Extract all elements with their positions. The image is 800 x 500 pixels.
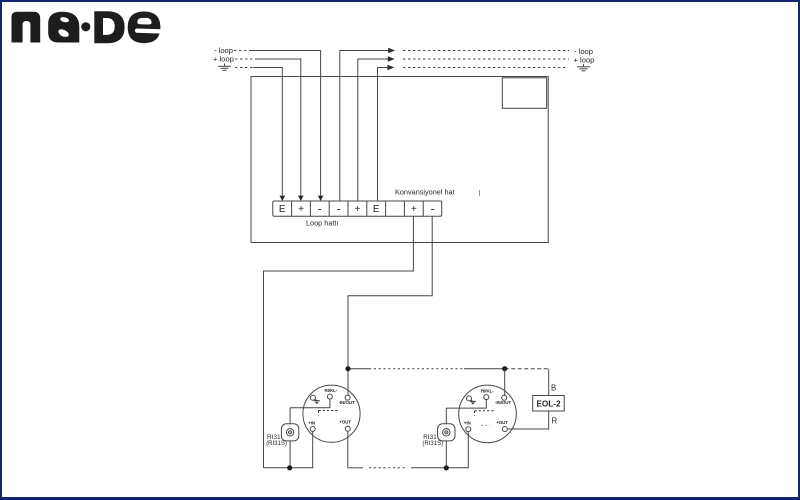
junction dot at detector1 -IN/OUT branch	[345, 366, 350, 371]
svg-text:E: E	[279, 204, 286, 215]
wire from conventional "+" terminal down-left-down to bottom bus	[264, 216, 414, 468]
wire down from bus corner to EOL-2 B	[548, 369, 550, 396]
svg-text:-IN/OUT: -IN/OUT	[339, 400, 355, 405]
det2 terminal RI/KL-	[484, 395, 489, 400]
RI31 #1 inner rings	[286, 429, 293, 436]
stray tick mark	[479, 190, 481, 196]
det2 terminal -IN/OUT	[502, 395, 507, 400]
terminal letters E + - - + E + -	[279, 202, 435, 216]
ground symbol top-left	[218, 64, 231, 71]
arrowhead right, - loop out	[388, 48, 395, 53]
svg-text:+IN: +IN	[464, 421, 471, 426]
terminal block outer	[273, 201, 442, 216]
det2 internal wire RI/KL- to RI31#2	[446, 400, 486, 409]
arrow into terminal "E" (cell 1)	[280, 196, 286, 201]
panel inner display box	[502, 78, 546, 109]
svg-text:E: E	[373, 204, 380, 215]
dashed continuation - loop right	[403, 50, 569, 52]
bottom bus middle: det1 +OUT to det2 +IN (solid-dashed-solid)	[348, 467, 363, 469]
detector base 2 circle	[459, 385, 517, 443]
wire down from junction2 to detector2 -IN/OUT	[504, 369, 506, 396]
wire RI31#2 bottom to bus	[445, 441, 447, 468]
svg-text:-: -	[431, 202, 435, 216]
svg-text:+: +	[354, 204, 360, 215]
wire + loop from left label to panel terminal	[235, 58, 255, 60]
arrowhead right, earth out	[387, 65, 394, 70]
na-de logo	[12, 11, 162, 43]
det1 internal dashed corner	[319, 411, 339, 416]
RI31 #2 inner rings	[443, 429, 450, 436]
svg-text:-IN/OUT: -IN/OUT	[495, 400, 511, 405]
wire det1 +OUT down to bus	[347, 431, 349, 468]
remote indicator RI31 #1 body	[281, 424, 298, 441]
wire - loop from left label to panel terminal (dashed then solid, turns down)	[234, 50, 251, 52]
svg-text:R: R	[552, 417, 558, 426]
dashed continuation + loop right	[403, 58, 569, 60]
arrowhead right, + loop out	[388, 56, 395, 61]
wire from terminal "E" (cell 6) up and out to right arrow	[378, 68, 388, 202]
svg-text:+: +	[411, 204, 417, 215]
ground symbol top-right	[577, 64, 590, 71]
wire det1 +IN down to bus	[312, 432, 314, 468]
svg-text:RI31: RI31	[423, 434, 437, 441]
det1 terminal +OUT	[345, 426, 350, 431]
det2 terminal ground	[467, 396, 472, 401]
junction dot RI31#1 on bottom bus	[287, 465, 292, 470]
svg-text:+OUT: +OUT	[496, 420, 508, 425]
svg-text:+: +	[298, 204, 304, 215]
control panel box	[251, 77, 548, 243]
terminal cell dividers	[292, 201, 424, 216]
top bus between detectors: solid, dotted, solid, dashed to EOL	[348, 368, 369, 370]
remote indicator RI31 #2 body	[438, 424, 455, 441]
svg-text:B: B	[551, 384, 556, 393]
bottom bus left: panel + to det1 +IN	[264, 467, 314, 469]
svg-text:(RI31S): (RI31S)	[266, 441, 287, 447]
wire RI31#1 bottom to bus	[289, 441, 291, 468]
svg-text:+OUT: +OUT	[339, 420, 351, 425]
svg-text:RI/KL-: RI/KL-	[481, 388, 494, 393]
wire det2 +IN down to bus	[467, 432, 469, 468]
svg-text:(RI31S): (RI31S)	[422, 441, 443, 447]
svg-text:+ loop: + loop	[574, 56, 595, 65]
arrow into terminal "+" (cell 2)	[298, 196, 304, 201]
wire from conventional "-" terminal down-left-down to -IN/OUT of detector 1	[348, 216, 432, 395]
det1 terminal RI/KL-	[327, 394, 332, 399]
detector base 1 circle	[303, 385, 360, 442]
svg-text:-: -	[337, 202, 341, 216]
wire RI31#1 top to det1 internal	[289, 408, 291, 424]
det2 terminal +IN	[466, 427, 471, 432]
det1 internal ground symbol	[314, 399, 320, 404]
det1 terminal -IN/OUT	[345, 395, 350, 400]
svg-text:+ loop: + loop	[213, 55, 234, 64]
wire RI31#2 top to det2 internal	[445, 408, 447, 424]
svg-text:Konvansiyonel hat: Konvansiyonel hat	[395, 187, 455, 196]
wire from terminal "-" (cell 4) up and out to right arrow	[340, 51, 389, 202]
wire earth from left ground to panel terminal	[235, 67, 253, 69]
arrow into terminal "-" (cell 3)	[318, 196, 324, 201]
det1 terminal +IN	[310, 427, 315, 432]
svg-text:-: -	[318, 202, 322, 216]
junction dot at detector2 -IN/OUT branch	[502, 366, 507, 371]
det2 internal dashed corner	[475, 411, 495, 416]
det1 terminal ground	[310, 395, 315, 400]
svg-text:RI/KL-: RI/KL-	[325, 388, 338, 393]
wire from terminal "+" (cell 5) up and out to right arrow	[358, 59, 389, 201]
dashed continuation earth right	[403, 67, 566, 69]
det2 terminal +OUT	[502, 427, 507, 432]
svg-text:EOL-2: EOL-2	[536, 399, 561, 408]
det2 faint dashes	[481, 424, 490, 426]
svg-text:RI31: RI31	[267, 434, 281, 441]
svg-text:+IN: +IN	[308, 420, 315, 425]
wire EOL-2 bottom to det2 +OUT	[507, 411, 548, 429]
det1 internal wire RI/KL- to RI31	[290, 399, 330, 408]
svg-text:Loop hattı: Loop hattı	[306, 219, 338, 228]
EOL-2 resistor box	[533, 396, 565, 412]
det2 internal ground symbol	[470, 400, 476, 405]
junction dot RI31#2 on bottom bus	[444, 465, 449, 470]
